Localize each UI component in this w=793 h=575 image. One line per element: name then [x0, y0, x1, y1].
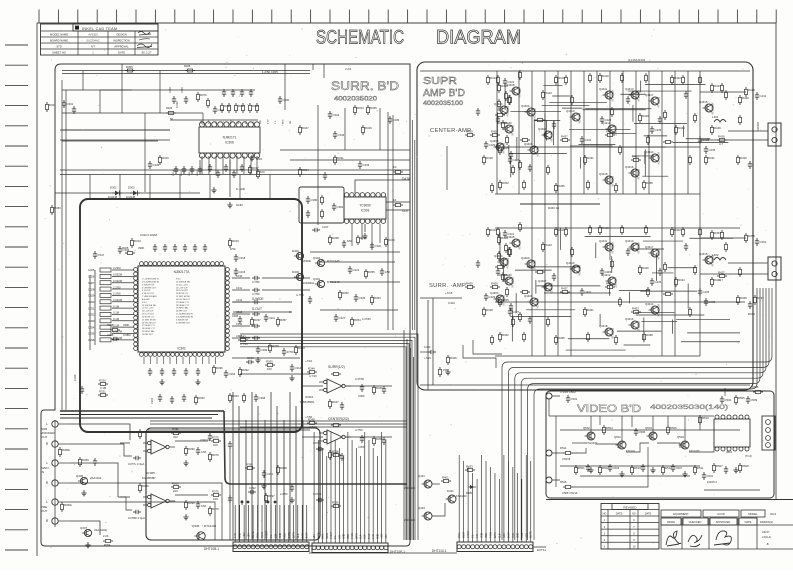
resistor R455 [555, 183, 566, 193]
svg-text:MODEL NAME: MODEL NAME [50, 32, 68, 36]
wire [533, 119, 535, 152]
svg-text:R319: R319 [232, 239, 239, 243]
svg-text:GCVD: GCVD [717, 512, 725, 516]
resistor R441 [508, 95, 511, 105]
svg-text:R422: R422 [674, 228, 681, 232]
svg-text:C378R 3.3µA: C378R 3.3µA [128, 516, 145, 520]
svg-text:MUTE: MUTE [318, 532, 320, 539]
resistor R450 [725, 90, 728, 100]
svg-text:R458: R458 [646, 181, 653, 185]
wire [270, 392, 272, 540]
svg-text:KTA1964: KTA1964 [579, 113, 582, 124]
wire [320, 309, 398, 311]
wire [326, 512, 328, 543]
svg-text:R360L: R360L [64, 503, 73, 507]
resistor R318 100 [257, 169, 266, 179]
diode D431 [466, 485, 476, 495]
svg-text:1/50: 1/50 [201, 450, 207, 454]
wire [510, 157, 512, 177]
resistor R439 [465, 281, 475, 288]
wire [509, 152, 567, 154]
wire [262, 277, 310, 279]
svg-text:R355: R355 [368, 270, 375, 274]
wire [292, 505, 294, 542]
wire [510, 110, 561, 112]
svg-text:P-ON: P-ON [490, 532, 492, 538]
wire [446, 146, 448, 190]
svg-text:C431: C431 [585, 290, 592, 294]
resistor R430 5.6K [739, 95, 750, 105]
wire [121, 64, 123, 113]
wire [120, 442, 130, 444]
svg-text:C215: C215 [239, 270, 246, 274]
transistor Q4413 KTC4R3A [625, 239, 641, 254]
svg-text:0.1M: 0.1M [113, 317, 120, 321]
svg-text:5 SL-OUT: 5 SL-OUT [142, 290, 151, 292]
wire [599, 314, 601, 326]
svg-text:DRAW: DRAW [667, 520, 675, 524]
svg-text:2SA(1162): 2SA(1162) [94, 528, 107, 532]
wire [579, 157, 581, 168]
wire [672, 319, 674, 333]
resistor R463 [631, 306, 641, 313]
wire [560, 465, 700, 467]
capacitor C421 [503, 230, 515, 238]
svg-text:4.7/16: 4.7/16 [240, 342, 248, 346]
wire [70, 424, 130, 440]
transistor Q4410 KTA1964 [566, 261, 582, 276]
resistor R452 [499, 180, 510, 190]
svg-text:Q4414: Q4414 [645, 302, 654, 306]
transistor Q432 KSA1249 [446, 489, 467, 503]
wire [704, 489, 760, 491]
wire [700, 237, 746, 239]
wire [240, 373, 310, 375]
wire [642, 175, 668, 177]
resistor R305b [125, 65, 135, 72]
connector video jack 2 [546, 450, 560, 456]
wire amp rail [495, 301, 745, 303]
wire vertical [284, 64, 286, 110]
svg-text:GND: GND [377, 534, 379, 539]
svg-text:ACK: ACK [364, 534, 367, 539]
svg-text:R455: R455 [558, 184, 565, 188]
svg-text:R368L: R368L [62, 448, 71, 452]
svg-text:R328: R328 [122, 246, 129, 250]
resistor R427 [512, 165, 515, 175]
capacitor C521 [586, 464, 590, 472]
wire [310, 251, 400, 253]
resistor R336 [213, 365, 224, 375]
capacitor C348 0.15M [169, 87, 179, 108]
svg-text:R356: R356 [332, 500, 339, 504]
wire [302, 436, 323, 438]
transistor Q4405 KTC3203 [499, 121, 515, 136]
node junction dots [241, 501, 276, 503]
svg-text:R343: R343 [239, 334, 246, 338]
capacitor C428 [509, 303, 513, 311]
wire vertical [344, 108, 346, 150]
resistor R352 [339, 290, 350, 300]
wire [635, 312, 675, 314]
wire [644, 135, 668, 137]
svg-text:Q301: Q301 [313, 277, 320, 281]
svg-text:R346: R346 [376, 386, 383, 390]
wire [432, 503, 445, 516]
wire [648, 71, 650, 194]
transistor Q4403 KSC2331 [494, 254, 510, 269]
capacitor C334 [88, 323, 134, 329]
ground [289, 497, 294, 503]
svg-text:R428: R428 [486, 308, 493, 312]
resistor R449 [711, 125, 722, 135]
capacitor C353 47/50 [355, 428, 365, 449]
capacitor C507 [671, 464, 683, 472]
svg-text:14 MUTE CTL: 14 MUTE CTL [142, 316, 154, 318]
svg-text:D304: D304 [292, 249, 299, 253]
transistor Q4415 KTC3198Y [699, 252, 715, 267]
connector input jack 1 [46, 421, 70, 427]
wire [644, 149, 646, 176]
wire amp input lower [427, 300, 429, 390]
capacitor C451 [755, 238, 767, 246]
capacitor C420 [496, 116, 500, 124]
svg-text:R430: R430 [742, 96, 749, 100]
svg-text:R460 1Ω: R460 1Ω [548, 206, 559, 210]
wire [364, 512, 366, 543]
wire [621, 416, 623, 448]
wire [306, 505, 308, 542]
resistor R456 [721, 230, 724, 240]
svg-text:DATE: DATE [616, 513, 623, 516]
capacitor C318 6/50 [234, 254, 246, 262]
wire [557, 71, 559, 356]
wire [334, 440, 336, 512]
svg-text:C427: C427 [513, 158, 520, 162]
svg-text:D301: D301 [110, 186, 117, 190]
resistor R459 [490, 281, 500, 288]
svg-text:95. 2.27: 95. 2.27 [142, 50, 152, 54]
svg-text:TC9090: TC9090 [359, 204, 371, 208]
resistor R437 [560, 286, 570, 293]
wire [257, 505, 259, 542]
svg-text:C327: C327 [88, 281, 95, 285]
capacitor C382 [332, 203, 344, 211]
wire [535, 280, 537, 294]
svg-text:Q433: Q433 [418, 506, 425, 510]
svg-text:R425: R425 [502, 146, 509, 150]
capacitor C311 [264, 314, 276, 322]
svg-text:R428: R428 [748, 88, 755, 92]
resistor R502 [599, 465, 610, 475]
wire [534, 120, 560, 122]
wire [676, 319, 730, 321]
capacitor C326 [88, 273, 134, 279]
wire [512, 467, 514, 508]
svg-text:INKEL CAD TEAM: INKEL CAD TEAM [82, 27, 117, 31]
svg-text:DATA: DATA [355, 533, 358, 539]
svg-text:KTA1267: KTA1267 [519, 239, 522, 250]
capacitor C302 [72, 106, 76, 114]
svg-text:R305: R305 [126, 65, 133, 69]
wire [343, 456, 345, 512]
svg-text:KTC3203: KTC3203 [658, 96, 661, 107]
svg-text:MUTE: MUTE [253, 531, 255, 538]
svg-text:C340: C340 [73, 374, 77, 381]
transistor Q4406 KTA1268 [524, 294, 540, 309]
svg-text:C429: C429 [489, 295, 496, 299]
resistor R506 [667, 425, 678, 435]
svg-text:Q4406: Q4406 [524, 142, 533, 146]
resistor R447 [664, 262, 667, 272]
svg-text:CLK: CLK [361, 534, 363, 539]
wire [635, 71, 637, 194]
capacitor C336 [88, 336, 134, 342]
capacitor C202 [170, 396, 174, 404]
svg-text:R385: R385 [172, 427, 179, 431]
svg-text:0.47/50: 0.47/50 [362, 317, 371, 321]
svg-text:C330: C330 [88, 300, 95, 304]
resistor R375 [211, 435, 221, 447]
capacitor C309 [256, 346, 268, 354]
wire [472, 473, 474, 508]
svg-text:+7/16: +7/16 [305, 359, 313, 363]
wire [503, 455, 505, 508]
svg-text:C341: C341 [203, 430, 210, 434]
svg-text:C505: C505 [639, 430, 646, 434]
resistor R347 [329, 399, 340, 409]
svg-text:Q4414: Q4414 [645, 150, 654, 154]
resistor R411 [498, 251, 501, 261]
svg-text:KTC3198Y: KTC3198Y [712, 102, 715, 115]
connector input jack 2 [46, 441, 70, 447]
wire [572, 447, 648, 487]
svg-text:DATA: DATA [402, 177, 411, 181]
wire amp rail [495, 355, 700, 357]
svg-text:R401: R401 [442, 475, 449, 479]
resistor R413 [487, 227, 498, 237]
svg-text:Q306: Q306 [76, 474, 83, 478]
ground [159, 379, 164, 385]
capacitor C301 [62, 100, 74, 108]
wire [507, 508, 509, 542]
transistor Q4418 KTC3203 [599, 324, 615, 339]
svg-text:10 S-MODE SEL: 10 S-MODE SEL [176, 281, 190, 283]
svg-text:DATA: DATA [292, 532, 295, 538]
svg-text:R054: R054 [104, 543, 111, 547]
wire [526, 309, 575, 311]
svg-text:APPROVAL: APPROVAL [114, 44, 129, 48]
op-amp IC301 NJM2177A [134, 262, 230, 364]
resistor R446 [639, 265, 650, 275]
wire [542, 104, 590, 106]
svg-text:R416: R416 [558, 228, 565, 232]
wire [240, 347, 406, 540]
svg-text:R428: R428 [486, 156, 493, 160]
wire [515, 288, 766, 540]
resistor R434 [675, 277, 686, 287]
svg-text:Q4411: Q4411 [599, 239, 608, 243]
wire [270, 505, 272, 542]
wire [511, 309, 513, 341]
svg-text:C328: C328 [88, 287, 95, 291]
svg-text:R439: R439 [466, 129, 473, 133]
resistor R420 [621, 225, 624, 235]
wire [236, 156, 238, 174]
resistor R415 [519, 70, 522, 80]
wire [239, 175, 241, 200]
capacitor C391 [262, 470, 274, 478]
svg-text:R308: R308 [184, 64, 191, 68]
resistor R439 [465, 129, 475, 136]
resistor R435 [689, 155, 692, 165]
svg-text:4.7/50: 4.7/50 [252, 292, 260, 296]
svg-text:R326: R326 [107, 323, 114, 327]
svg-text:2.2K: 2.2K [103, 534, 109, 538]
op-amp IC304a NJM4558 [319, 379, 351, 393]
resistor R436 [535, 271, 545, 274]
svg-text:Q4413: Q4413 [625, 239, 634, 243]
resistor R441 [508, 247, 511, 257]
transistor Q502 KTA1267Y [583, 426, 598, 445]
resistor R346 [373, 385, 384, 395]
transistor Q4410 KTA1964 [566, 109, 582, 124]
capacitor C347b [213, 106, 225, 114]
wire vertical [317, 105, 319, 197]
wire [620, 93, 645, 95]
svg-text:LX(1L4): LX(1L4) [762, 535, 771, 539]
svg-text:SW-R: SW-R [262, 532, 264, 538]
svg-text:17 DELAY CT1: 17 DELAY CT1 [176, 301, 189, 304]
capacitor C205 [196, 368, 200, 376]
capacitor C310 [232, 274, 260, 280]
transistor Q4414 KSA1220A [645, 302, 661, 317]
svg-text:DATA: DATA [494, 532, 497, 538]
wire amp mid rail [420, 384, 750, 386]
resistor R433 [647, 135, 650, 145]
resistor R456 [587, 332, 590, 342]
resistor R386 [171, 481, 181, 493]
wire [609, 71, 611, 260]
svg-text:R440: R440 [505, 273, 512, 277]
svg-text:C427: C427 [513, 310, 520, 314]
resistor R335 [249, 103, 260, 113]
wire [414, 140, 416, 330]
svg-text:R508: R508 [742, 464, 749, 468]
resistor R462 [663, 293, 673, 296]
svg-text:R321: R321 [99, 389, 106, 393]
svg-text:Q4407: Q4407 [538, 279, 547, 283]
wire [687, 71, 689, 194]
label PRE OUT [41, 505, 48, 513]
svg-text:S-IN: S-IN [513, 533, 515, 538]
wire [209, 175, 211, 200]
svg-text:C314: C314 [295, 366, 302, 370]
capacitor C349 [181, 87, 188, 104]
svg-text:REVISED: REVISED [623, 505, 637, 509]
wire [420, 351, 430, 353]
svg-text:S-R: S-R [339, 535, 341, 539]
resistor R395 [185, 446, 196, 456]
svg-text:100: 100 [267, 367, 272, 371]
svg-text:R511: R511 [697, 466, 704, 470]
svg-text:C313: C313 [236, 310, 243, 314]
wire [355, 180, 410, 193]
svg-text:C329: C329 [88, 294, 95, 298]
svg-text:R507: R507 [716, 464, 723, 468]
svg-text:2 R-SURROUND IN: 2 R-SURROUND IN [176, 316, 194, 318]
svg-text:KTC3203: KTC3203 [638, 320, 641, 331]
resistor R365 [139, 429, 150, 439]
wire [295, 406, 297, 540]
wire [222, 156, 224, 174]
svg-text:D302: D302 [128, 186, 135, 190]
capacitor C335 [388, 116, 400, 124]
svg-text:L401: L401 [712, 115, 719, 119]
wire [276, 406, 278, 540]
wire [528, 288, 760, 540]
svg-text:2SD1302: 2SD1302 [404, 486, 415, 490]
svg-text:Q503: Q503 [677, 435, 684, 439]
svg-text:R344: R344 [308, 366, 315, 370]
svg-text:C333: C333 [88, 319, 95, 323]
capacitor C353 [240, 89, 244, 97]
svg-text:DATE: DATE [645, 513, 652, 516]
resistor R442 [509, 95, 512, 105]
capacitor C431 [580, 288, 592, 296]
wire [360, 512, 362, 543]
capacitor C201 [148, 368, 152, 376]
capacitor C365 [208, 164, 212, 172]
capacitor C204 [184, 368, 188, 376]
resistor R353 [371, 295, 382, 305]
svg-text:R501: R501 [578, 466, 585, 470]
wire [668, 267, 696, 269]
svg-text:EQUIPMENT: EQUIPMENT [673, 512, 689, 516]
svg-text:R429: R429 [740, 156, 747, 160]
wire [368, 440, 370, 512]
svg-text:IC303: IC303 [361, 209, 370, 213]
wire [248, 505, 250, 542]
svg-text:C323 0.022M: C323 0.022M [140, 233, 157, 237]
wire [208, 156, 210, 174]
capacitor C425 [698, 136, 710, 144]
svg-text:100/10: 100/10 [723, 388, 727, 396]
resistor R438 [721, 83, 724, 93]
capacitor C305 [193, 244, 197, 252]
svg-text:DTA1145: DTA1145 [204, 524, 217, 528]
svg-text:R376: R376 [212, 507, 219, 511]
wire [640, 290, 697, 292]
resistor R376 [211, 489, 221, 501]
svg-text:R446: R446 [642, 114, 649, 118]
wire [62, 129, 170, 131]
wire [473, 340, 502, 354]
svg-text:R323: R323 [166, 106, 173, 110]
wire [124, 444, 132, 456]
wire [386, 201, 410, 203]
svg-text:Q4416: Q4416 [625, 317, 634, 321]
wire [364, 432, 366, 512]
capacitor C420 [496, 268, 500, 276]
svg-text:4.5V: 4.5V [208, 119, 210, 124]
resistor R461 [605, 129, 615, 136]
wire [70, 501, 106, 503]
resistor R331 [221, 103, 232, 113]
wire [481, 508, 483, 542]
resistor R363 [229, 393, 240, 403]
transistor Q305 DTA1145 [192, 524, 217, 540]
